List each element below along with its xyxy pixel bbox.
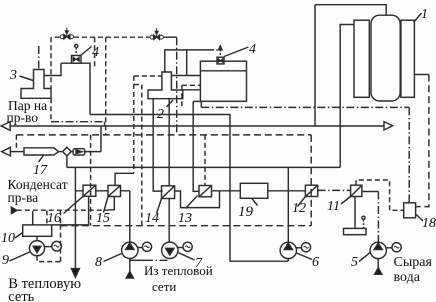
reducing unit 2 (T-shape) xyxy=(148,72,183,99)
regulator 4b stem xyxy=(219,50,221,58)
wire dash-dot return between pumps xyxy=(130,259,145,261)
safety valve V2 xyxy=(150,28,163,40)
wire deaerator drain to dash-dot xyxy=(200,101,202,107)
pump 6 xyxy=(280,242,311,258)
wire dash-dot drop at x176.7 xyxy=(176,37,178,135)
arrow open left (Пар на пр-во) xyxy=(1,122,10,131)
svg-text:Из тепловой: Из тепловой xyxy=(144,263,213,278)
wire dashed loop bottom xyxy=(61,225,312,227)
wire dashed raw water route via 18 xyxy=(356,180,404,210)
wire pump5 suction raw water xyxy=(377,259,379,268)
wire jumper into heater 15 top xyxy=(115,173,134,185)
vent stem on drain tank xyxy=(363,220,365,229)
boiler 1 top steam line xyxy=(315,5,386,16)
svg-text:4: 4 xyxy=(92,45,99,60)
svg-text:7: 7 xyxy=(195,256,203,271)
wire dash-dot deaerated water line to 18 xyxy=(201,107,409,202)
svg-text:18: 18 xyxy=(422,216,436,231)
deaerator water level line xyxy=(200,70,246,72)
wire pump6 riser from header xyxy=(287,167,289,242)
boiler 1 left screen xyxy=(354,20,369,97)
wire heater 11 to raw water pump 5 xyxy=(362,191,379,193)
pump 5 xyxy=(370,242,401,258)
wire dashed vent between V1 and V2 xyxy=(74,36,149,38)
wire pump6 bottom stub xyxy=(287,259,289,262)
wire pump8 suction xyxy=(129,259,131,273)
wire dashed vent drop at x105.7 xyxy=(105,37,107,135)
wire dashed drop to cooler 17 line xyxy=(15,135,17,150)
svg-text:19: 19 xyxy=(238,204,254,220)
steam main to production xyxy=(10,125,384,127)
heater-economizer 19 xyxy=(240,183,267,198)
svg-text:13: 13 xyxy=(178,211,192,226)
svg-text:5: 5 xyxy=(351,255,358,270)
wire dashed loop right side xyxy=(310,135,312,226)
heater 16 xyxy=(64,185,96,213)
wire cooler line riser to main xyxy=(85,126,101,152)
label 5 leader xyxy=(359,253,370,262)
wire deaerator feed line xyxy=(183,89,201,91)
svg-text:8: 8 xyxy=(95,255,102,270)
condensate tank 10 xyxy=(23,225,52,236)
svg-text:сети: сети xyxy=(152,279,176,294)
wire dash-dot heater 12 to 11 xyxy=(318,189,351,191)
wire impulse line to regulator 4b xyxy=(165,50,208,72)
wire heater16 drain to tank 10 xyxy=(52,196,89,225)
pump 9 xyxy=(29,241,61,256)
wire dashed vertical x141.8 xyxy=(141,85,143,226)
wire heater15 to network pump 8 xyxy=(129,191,131,242)
svg-text:пр-во: пр-во xyxy=(7,110,39,125)
heater 14 xyxy=(157,186,175,214)
wire dashed vertical x90.6 xyxy=(90,135,92,226)
wire tank to pump 9 xyxy=(36,236,38,240)
wire network water line segments xyxy=(75,190,305,192)
diamond expander xyxy=(63,147,72,156)
pump 8 xyxy=(122,242,152,258)
svg-text:3: 3 xyxy=(9,68,17,83)
label 19 leader xyxy=(252,198,258,205)
wire dashed steam to heater 13 top xyxy=(204,135,206,186)
wire heater15 bottom stub xyxy=(109,197,115,210)
svg-text:12: 12 xyxy=(292,201,306,216)
regulator 4a bridge xyxy=(61,63,90,114)
wire dashed vent drop at x51 xyxy=(50,37,52,122)
wire dashed into deaerator left xyxy=(182,85,201,107)
wire dashed step at unit2 left xyxy=(134,76,162,85)
label 3 leader xyxy=(20,76,34,81)
wire dashed stub at x94.6 xyxy=(94,37,96,68)
label 8 leader xyxy=(104,254,122,262)
svg-text:вода: вода xyxy=(394,270,421,285)
label 9 leader xyxy=(10,252,30,261)
label 4a leader xyxy=(81,47,92,56)
boiler 1 drum xyxy=(371,15,400,101)
safety valve V1 xyxy=(60,28,73,40)
check valve box xyxy=(73,149,85,155)
wire unit2 drop through heater 14 to pump 7 xyxy=(168,99,170,243)
wire unit3 to regulator bridge xyxy=(44,63,61,75)
svg-text:11: 11 xyxy=(327,199,340,214)
water treatment 18 xyxy=(404,203,416,218)
wire boiler feed from header xyxy=(340,25,354,168)
wire unit2 steam to deaerator xyxy=(171,50,200,76)
regulator 4b box xyxy=(217,57,224,64)
svg-text:9: 9 xyxy=(2,253,9,268)
label 6 leader xyxy=(297,253,313,260)
wire U-dip heater 14 to heater 13 xyxy=(175,191,220,208)
wire dash-dot raw water down to pump 5 xyxy=(377,192,379,243)
wire feed line from regulator bridge to pump 6 loop xyxy=(90,115,288,262)
boiler 1 right screen xyxy=(401,20,415,97)
wire dash-dot reduced steam to main xyxy=(51,122,105,126)
svg-text:15: 15 xyxy=(96,211,110,226)
wire heater11 drain xyxy=(354,197,356,229)
wire V2 to dash-dot drop xyxy=(164,36,177,38)
svg-text:1: 1 xyxy=(421,7,428,22)
wire unit2 condensate line to heater 14 left xyxy=(153,99,163,191)
deaerator column xyxy=(200,61,246,101)
wire diamond drop to header xyxy=(66,156,68,168)
regulator 4a box xyxy=(72,56,82,64)
condensate cooler 17 arrow left xyxy=(2,147,11,156)
label 18 leader xyxy=(416,214,423,221)
wire dashed condensate return xyxy=(17,209,109,211)
svg-text:10: 10 xyxy=(1,231,15,246)
pump 7 xyxy=(162,242,193,258)
svg-text:4: 4 xyxy=(249,42,256,57)
svg-text:17: 17 xyxy=(33,163,48,178)
label 4b leader xyxy=(224,47,249,57)
regulator 4a stem xyxy=(75,48,77,56)
reducing unit 3 (T-shape) xyxy=(21,70,51,99)
wire steam drop from boiler to main xyxy=(314,5,316,126)
svg-text:Сырая: Сырая xyxy=(394,255,433,270)
heater 11 xyxy=(341,185,362,204)
wire dash-dot return to pump 7 xyxy=(145,259,170,261)
label 7 leader xyxy=(178,253,195,261)
svg-text:14: 14 xyxy=(145,211,159,226)
wire network supply drop (to heating net) xyxy=(74,167,76,270)
condensate header xyxy=(67,166,340,168)
svg-text:6: 6 xyxy=(312,255,319,270)
wire dash-dot into unit 3 top xyxy=(38,46,40,70)
wire dashed steam to heater 15 xyxy=(133,76,135,173)
wire dashed vapour line (big loop top) xyxy=(16,134,311,136)
wire dashed vent left of V1 xyxy=(51,36,60,38)
wire deaerator down to heater 13 left xyxy=(193,101,199,191)
heater 13 xyxy=(186,186,212,209)
wire dashed pump9 discharge loop xyxy=(37,210,61,261)
wire deaerator bottom left extension xyxy=(193,100,200,102)
wire tank stubs xyxy=(32,211,34,225)
wire boiler right outlet xyxy=(414,74,429,76)
svg-text:2: 2 xyxy=(157,107,164,122)
arrow open right end of steam main xyxy=(384,122,393,130)
svg-text:сеть: сеть xyxy=(8,289,34,302)
arrow filled condensate return (Конденсат пр-ва) xyxy=(11,207,16,213)
heater 15 xyxy=(104,185,121,212)
heater 12 xyxy=(298,185,318,206)
label 2 leader xyxy=(167,100,174,107)
label 10 leader xyxy=(15,233,23,239)
condensate cooler 17 body xyxy=(24,148,59,155)
arrow filled down (В тепловую сеть) xyxy=(71,269,79,278)
svg-text:16: 16 xyxy=(47,211,61,226)
regulator 4a bowtie xyxy=(73,57,79,62)
wire dashed boiler outlet down to water treatment 18 xyxy=(416,75,429,207)
drain tank under heater 11 xyxy=(344,228,367,234)
label 1 leader xyxy=(414,13,422,23)
label 17 leader xyxy=(39,155,44,162)
svg-text:пр-ва: пр-ва xyxy=(8,190,39,205)
